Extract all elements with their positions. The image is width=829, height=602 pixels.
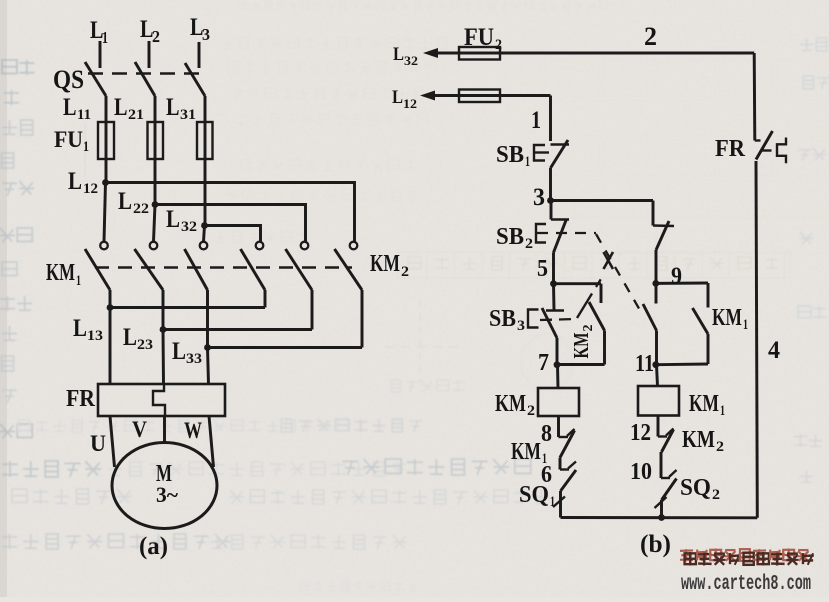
mechanical linkage crossing X mark	[604, 252, 614, 269]
svg-text:10: 10	[630, 459, 652, 485]
fuse FU2 lower body	[459, 90, 500, 103]
wire QS pole2 to fuse FU1b	[154, 96, 157, 123]
svg-text:SB: SB	[489, 306, 516, 332]
contactor main contact pole 6 blade	[335, 249, 363, 290]
wire FR to motor terminal W	[209, 416, 214, 467]
svg-text:W: W	[184, 418, 202, 443]
svg-text:2: 2	[495, 37, 502, 53]
wire node 7 to coil KM2	[556, 365, 559, 388]
wire node 3 down to SB2	[550, 201, 553, 220]
wire SB3 to node 7	[556, 338, 559, 365]
pushbutton SB2 right branch upper wire	[652, 201, 655, 226]
svg-text:KM: KM	[46, 260, 75, 286]
wire fuse FU1c through to node L32	[204, 123, 207, 226]
fuse FU1 phase3 body	[197, 122, 213, 159]
wire pole4 bottom to node L13	[264, 290, 267, 308]
svg-text:13: 13	[87, 328, 103, 344]
wire pole1 bottom to node L13	[109, 290, 112, 308]
svg-text:L: L	[73, 315, 87, 342]
wire node 10 vertical	[660, 452, 663, 478]
svg-text:V: V	[132, 417, 147, 442]
svg-text:L: L	[63, 94, 77, 121]
wire node L32 down to pole3 contact	[204, 226, 205, 242]
svg-text:2: 2	[581, 325, 596, 332]
wire L33 down to relay FR	[208, 348, 209, 385]
pushbutton SB3 upper wire	[552, 284, 555, 310]
svg-text:L: L	[392, 87, 403, 108]
contactor main contact pole 1 blade	[85, 249, 110, 290]
contactor main contact pole 4 terminal circle	[256, 242, 264, 250]
control line 1 wire	[433, 94, 551, 97]
svg-text:FU: FU	[54, 127, 83, 152]
bottom rail wire	[561, 516, 758, 519]
wire node L32 crossover to KM2 pole4	[205, 226, 261, 242]
svg-text:SQ: SQ	[519, 482, 549, 508]
wire node 9 to KM1 aux contact	[656, 282, 708, 285]
wire node L13 horizontal	[110, 306, 265, 309]
pushbutton SB1 blade	[551, 140, 569, 168]
wire SB2 right to node 9	[655, 250, 658, 283]
contact KM2 aux blade	[589, 302, 605, 331]
svg-text:KM: KM	[370, 251, 400, 277]
svg-text:11: 11	[635, 351, 654, 377]
wire node 11 to coil KM1	[657, 365, 658, 386]
contactor main contact pole 5 terminal circle	[301, 242, 309, 250]
pushbutton SB2 actuator bracket	[536, 224, 546, 243]
switch QS pole 2 blade	[135, 62, 155, 96]
svg-text:2: 2	[401, 264, 409, 280]
svg-text:L: L	[393, 44, 404, 65]
svg-text:www.cartech8.com: www.cartech8.com	[681, 573, 811, 596]
wire 4 right side vertical	[756, 161, 757, 518]
node L2 lead-in wire	[148, 41, 151, 68]
contact KM1 interlock blade	[560, 431, 575, 458]
coil KM2 body	[538, 388, 579, 416]
contactor main contact pole 6 terminal circle	[350, 242, 358, 250]
wire QS pole1 to fuse FU1a	[105, 96, 108, 123]
node 7 junction dot	[554, 361, 561, 368]
svg-text:23: 23	[137, 337, 153, 353]
svg-text:KM: KM	[495, 391, 526, 417]
contactor KM1/KM2 linkage dashed line	[95, 266, 352, 269]
wire node L33 horizontal	[208, 346, 363, 349]
node 3 junction dot	[547, 197, 554, 204]
contact KM2 aux lower wire	[603, 331, 606, 365]
svg-text:33: 33	[186, 351, 202, 367]
wire SB3 right to node 11	[655, 331, 658, 366]
svg-text:U: U	[90, 431, 106, 456]
svg-text:3: 3	[202, 25, 210, 44]
node L1 lead-in wire	[99, 41, 102, 68]
wire KM2 aux to node 7	[557, 363, 605, 366]
wire node 1 vertical	[549, 96, 552, 142]
svg-text:8: 8	[541, 421, 552, 447]
pushbutton SB3 right blade	[643, 304, 657, 331]
watermark chinese calligraphy (pseudo-glyph doodles)	[680, 549, 814, 566]
wire SB1 to node 3	[549, 168, 552, 201]
node L3 lead-in wire	[198, 42, 201, 68]
svg-text:21: 21	[128, 107, 144, 123]
contactor main contact pole 2 terminal circle	[150, 242, 158, 250]
limit switch SQ1 actuator foot	[553, 497, 565, 508]
contactor main contact pole 4 blade	[241, 249, 266, 290]
control line 2 arrow to L32	[423, 48, 438, 58]
limit switch SQ1 blade	[561, 470, 577, 491]
svg-text:KM: KM	[712, 305, 742, 331]
svg-text:2: 2	[527, 403, 535, 419]
svg-text:1: 1	[76, 273, 81, 289]
pushbutton SB3 linkage dashes	[540, 319, 577, 320]
wire node 6 vertical	[559, 458, 562, 470]
thermal contact FR upper wire	[753, 53, 757, 141]
wire QS pole3 to fuse FU1c	[204, 96, 207, 123]
wire coil KM1 to node 12	[657, 416, 660, 437]
svg-text:1: 1	[720, 403, 725, 419]
wire L23 down to relay FR	[162, 330, 165, 385]
wire pole6 bottom to node L33	[361, 290, 364, 348]
svg-text:SB: SB	[496, 142, 524, 168]
wire FR to motor terminal U	[110, 416, 115, 467]
wire pole5 bottom to node L23	[311, 290, 314, 330]
label KM2 aux contact (rotated)	[569, 325, 596, 359]
svg-text:FU: FU	[464, 24, 494, 51]
pushbutton SB1 seat bar	[551, 143, 570, 145]
node 5 junction dot	[550, 280, 557, 287]
wire pole3 bottom to node L33	[206, 290, 209, 348]
wire SQ1 to bottom rail	[559, 491, 562, 518]
wire FR to motor terminal V	[163, 416, 166, 443]
coil KM1 body	[638, 386, 679, 416]
fuse FU2 upper body	[459, 47, 500, 60]
wire pole2 bottom to node L23	[162, 290, 165, 330]
svg-text:1: 1	[525, 154, 530, 170]
svg-text:11: 11	[77, 107, 91, 123]
pushbutton SB2 linkage dashes	[537, 232, 596, 234]
svg-text:2: 2	[525, 236, 533, 252]
svg-text:1: 1	[102, 28, 108, 47]
svg-text:L: L	[172, 338, 186, 365]
node L32 junction dot	[201, 222, 208, 229]
limit switch SQ1 seat	[560, 468, 569, 470]
svg-text:1: 1	[83, 139, 89, 155]
thermal contact FR function hook	[777, 138, 786, 164]
contactor main contact pole 3 terminal circle	[200, 242, 208, 250]
svg-text:QS: QS	[53, 65, 84, 94]
node L33 junction dot	[204, 344, 211, 351]
wire node L23 horizontal	[163, 328, 312, 331]
contact KM1 interlock seat	[559, 436, 569, 438]
wire fuse FU1a through to node L12	[105, 123, 108, 183]
contactor main contact pole 1 terminal circle	[100, 242, 108, 250]
svg-text:1: 1	[743, 317, 748, 333]
svg-text:2: 2	[644, 22, 657, 51]
svg-text:1: 1	[550, 494, 555, 510]
wire L13 down to relay FR	[109, 308, 112, 385]
bottom rail junction dot	[658, 514, 665, 521]
svg-text:FR: FR	[66, 386, 96, 412]
contactor main contact pole 2 blade	[135, 249, 164, 290]
control line 1 arrow to L12	[420, 91, 435, 101]
svg-text:L: L	[68, 168, 82, 195]
svg-text:FR: FR	[715, 136, 746, 162]
thermal relay FR heater notch	[153, 384, 165, 416]
pushbutton SB2 left seat bar	[551, 218, 569, 220]
thermal contact FR nc bar	[762, 149, 772, 151]
svg-text:L: L	[114, 94, 128, 121]
switch QS linkage dashed line	[88, 72, 206, 75]
node L22 junction dot	[152, 201, 159, 208]
contact KM2 interlock seat	[658, 435, 667, 437]
contact KM1 aux upper wire	[707, 283, 710, 308]
limit switch SQ2 seat	[661, 477, 670, 479]
contact KM2 interlock blade	[662, 430, 674, 453]
svg-text:31: 31	[180, 107, 196, 123]
svg-text:3: 3	[517, 318, 525, 334]
svg-text:SQ: SQ	[680, 475, 711, 501]
svg-text:(a): (a)	[139, 533, 168, 560]
node L12 junction dot	[102, 179, 109, 186]
svg-text:L: L	[166, 94, 180, 121]
svg-text:5: 5	[537, 256, 548, 282]
svg-text:(b): (b)	[640, 531, 671, 558]
wire SQ2 to bottom rail	[660, 500, 663, 518]
wire KM1 aux to node 11	[656, 363, 708, 367]
svg-text:3: 3	[533, 184, 545, 211]
pushbutton SB2 left blade	[554, 219, 567, 253]
contact KM1 aux blade	[693, 308, 709, 334]
motor M 3-phase circle	[112, 443, 217, 529]
pushbutton SB3 actuator bracket	[528, 310, 539, 328]
svg-text:2: 2	[716, 439, 724, 455]
svg-text:22: 22	[133, 201, 149, 217]
pushbutton SB2 right blade	[656, 221, 669, 250]
wire fuse FU1b through to node L22	[154, 123, 157, 205]
svg-text:KM: KM	[689, 391, 719, 417]
svg-text:L: L	[123, 324, 137, 351]
contact KM1 aux lower wire	[707, 334, 710, 364]
pushbutton SB3 blade	[542, 308, 557, 338]
thermal contact FR blade	[756, 131, 773, 160]
wire node L22 down to pole2 contact	[154, 205, 156, 242]
node L13 junction dot	[107, 304, 114, 311]
wire node 5 to KM2 aux contact	[554, 282, 602, 285]
wire node L12 down to pole1 contact	[104, 183, 106, 242]
svg-text:KM: KM	[511, 439, 541, 465]
svg-text:12: 12	[630, 420, 651, 446]
wire SB2 to node 5	[552, 253, 555, 285]
svg-text:KM: KM	[682, 427, 715, 453]
svg-text:12: 12	[83, 181, 98, 197]
node L23 junction dot	[160, 326, 167, 333]
svg-text:KM: KM	[569, 332, 593, 358]
pushbutton SB1 actuator bracket	[534, 145, 545, 161]
svg-text:L: L	[166, 206, 180, 233]
svg-text:2: 2	[712, 487, 720, 503]
limit switch SQ2 actuator foot	[655, 497, 667, 508]
contact KM2 aux upper wire	[600, 284, 603, 303]
svg-text:9: 9	[671, 263, 682, 290]
svg-text:12: 12	[403, 96, 417, 111]
pushbutton SB2 right seat bar	[653, 224, 674, 227]
svg-text:1: 1	[531, 107, 541, 134]
switch QS pole 3 blade	[185, 63, 205, 96]
svg-text:SB: SB	[496, 224, 524, 250]
contactor main contact pole 5 blade	[286, 249, 313, 290]
pushbutton SB3 right branch upper wire	[655, 283, 658, 303]
svg-text:2: 2	[152, 27, 160, 46]
pushbutton SB3 seat bar	[546, 309, 564, 311]
svg-text:4: 4	[768, 337, 780, 364]
control line 2 wire	[436, 52, 754, 55]
node 11 junction dot	[652, 361, 659, 368]
node 9 junction dot	[652, 280, 659, 287]
fuse FU1 phase1 body	[98, 122, 114, 159]
thermal relay FR body	[98, 384, 225, 416]
contactor main contact pole 3 blade	[185, 249, 208, 290]
pushbutton SB2 linkage diagonal dashes to X	[596, 234, 641, 312]
fuse FU1 phase2 body	[148, 122, 164, 159]
svg-text:32: 32	[181, 219, 197, 235]
wire node L22 crossover to KM2 pole5	[155, 205, 306, 242]
svg-text:7: 7	[538, 350, 549, 376]
svg-text:L: L	[118, 188, 132, 215]
limit switch SQ2 blade	[662, 479, 677, 501]
svg-text:3~: 3~	[156, 482, 179, 507]
thermal contact FR seat stub	[755, 139, 761, 141]
svg-text:32: 32	[404, 53, 418, 68]
pushbutton SB3 linkage diagonal	[577, 294, 592, 319]
switch QS pole 1 blade	[85, 62, 106, 96]
wire coil KM2 to node 8	[557, 416, 560, 437]
wire node 3 horizontal to right branch	[551, 199, 654, 202]
wire node L12 crossover to KM2 pole6	[106, 183, 355, 242]
